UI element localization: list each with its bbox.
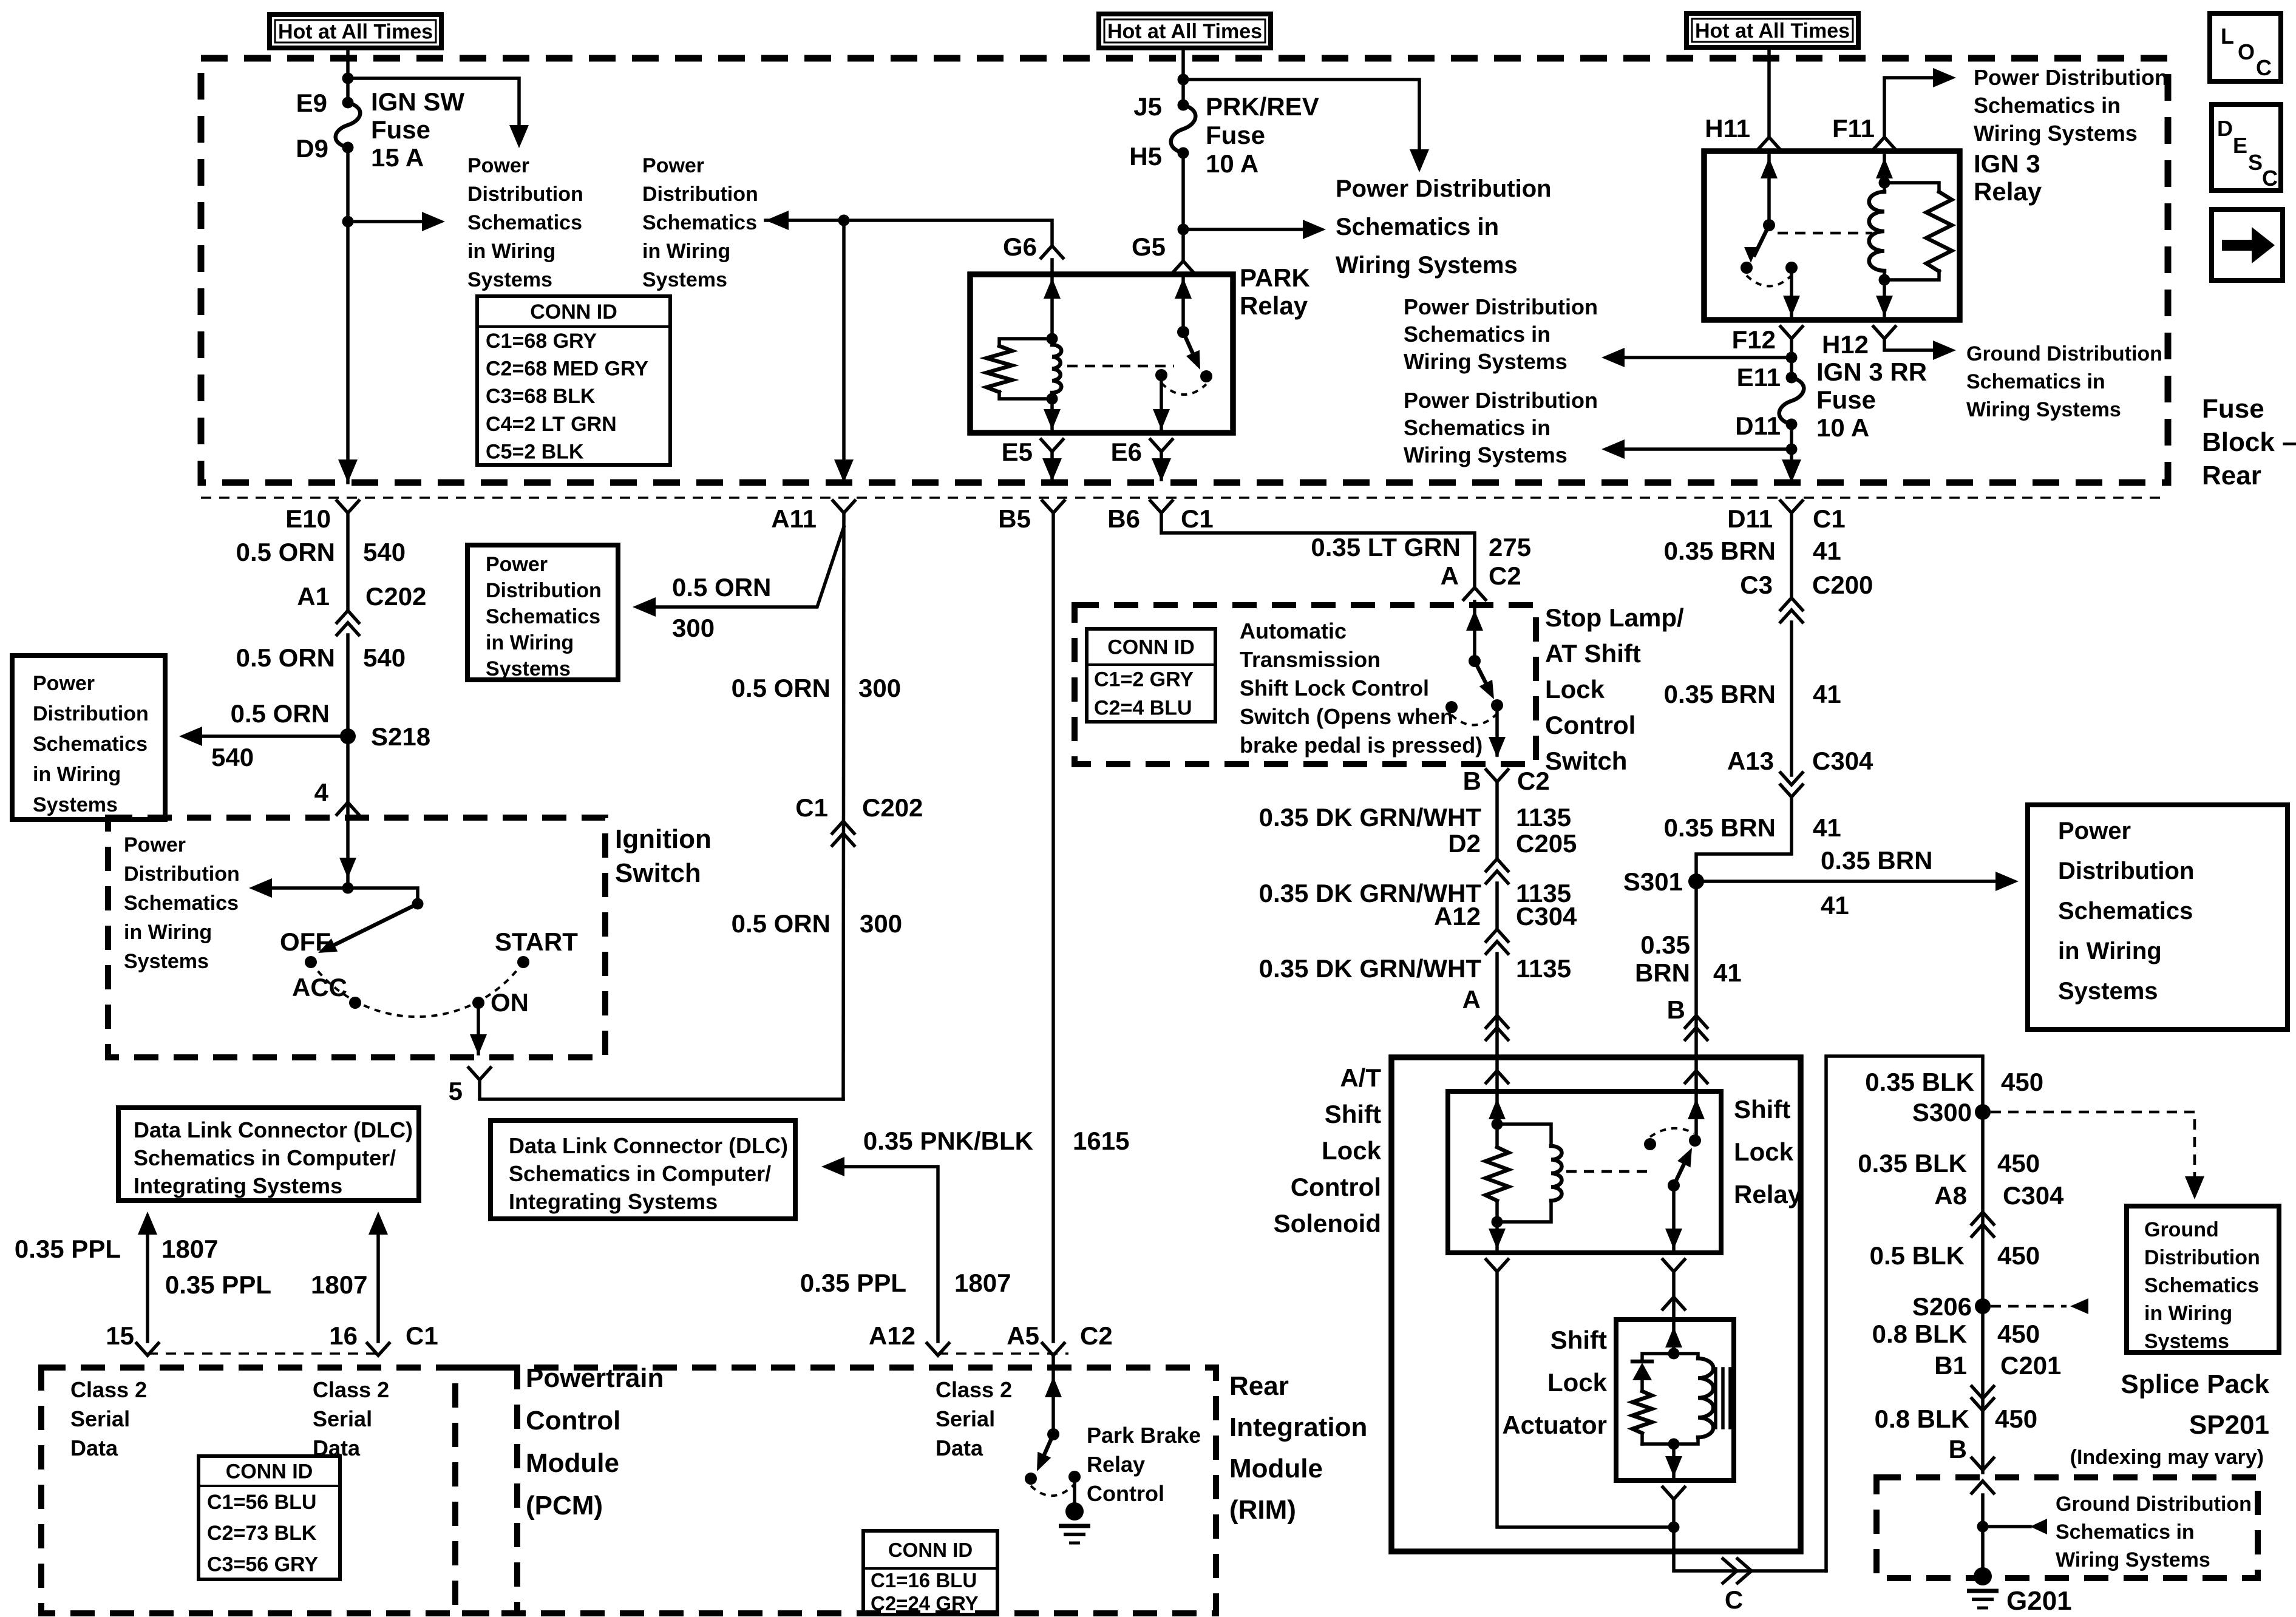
svg-text:Data Link Connector (DLC): Data Link Connector (DLC) [509,1133,788,1158]
link: IGN 3 relay coil to switch (dashed) [1778,232,1872,235]
svg-text:Module: Module [1229,1454,1323,1483]
svg-text:B6: B6 [1107,504,1140,533]
wire: coil return to solenoid common [1497,1272,1668,1527]
svg-text:C: C [2262,166,2278,191]
PCM connector boundary (thin dashed) [148,1352,378,1355]
CONN ID table (shift lock control switch) [1087,629,1215,722]
svg-text:Distribution: Distribution [467,183,583,206]
svg-text:Schematics: Schematics [642,211,757,234]
svg-text:Rear: Rear [1229,1371,1289,1401]
wire: A5 into RIM park brake switch [1051,1355,1055,1434]
splice S218 [340,728,356,744]
pin E10 (fuse block output) [337,501,359,513]
svg-text:Lock: Lock [1547,1368,1608,1397]
svg-text:C304: C304 [1516,902,1577,931]
junction on IGN SW output [342,216,354,228]
branch: ground distribution reference arrow [1983,1525,2030,1528]
svg-text:Actuator: Actuator [1502,1411,1607,1439]
CONN ID table (RIM) [863,1531,997,1615]
pin G5 (PARK relay switch feed) [1172,261,1194,273]
shift lock relay coil top junction [1492,1119,1503,1130]
svg-text:E11: E11 [1737,363,1781,392]
svg-text:in Wiring: in Wiring [33,763,121,786]
svg-text:A/T: A/T [1340,1063,1381,1092]
svg-text:Ground Distribution: Ground Distribution [1966,342,2162,365]
switch throw arc (park brake switch, dashed) [1031,1484,1075,1496]
rotary switch pivot [412,898,424,910]
svg-text:OFF: OFF [280,927,331,956]
svg-text:Schematics: Schematics [486,605,600,628]
svg-text:C202: C202 [365,582,426,611]
svg-text:0.35: 0.35 [1640,931,1690,959]
wire: 0.35 PNK/BLK 1615 (B5 to RIM A5) [1051,513,1055,1341]
svg-text:C2=68 MED GRY: C2=68 MED GRY [486,358,648,381]
svg-text:Fuse: Fuse [371,115,430,144]
svg-text:O: O [2238,39,2255,64]
IGN 3 relay contact (output to F12) [1785,262,1798,274]
svg-text:Hot at All Times: Hot at All Times [1107,20,1262,43]
IGN 3 relay coil bottom junction [1879,274,1890,286]
pin F12 [1781,327,1802,339]
ground G201 [1974,1567,1992,1585]
svg-text:in Wiring: in Wiring [124,921,212,944]
svg-text:0.35 BRN: 0.35 BRN [1664,537,1776,565]
IGN 3 relay coil branch (pin arrow) [1883,151,1886,183]
svg-text:Switch: Switch [615,858,701,888]
wire: A11 down to C202 and ignition switch feed [843,513,844,1099]
wire: branch arrow to Power Distribution reference (3) [1183,228,1305,231]
connector chevron into actuator [1663,1297,1685,1309]
svg-text:E6: E6 [1111,438,1142,466]
wire: 0.35 DK GRN/WHT 1135 (B to C205) [1495,782,1499,859]
wire: branch to Power Distribution reference (0.5 ORN 300) [654,527,844,607]
connector pin B (A/T shift lock control solenoid) [1685,1015,1707,1028]
wire: coil low side to pin H12 [1883,280,1886,320]
wire: 0.35 BLK 450 return (C up to splice pack) [1826,1056,1983,1571]
wire: 0.35 DK GRN/WHT 1135 (C205 to C304) [1495,883,1499,929]
svg-text:START: START [495,927,578,956]
svg-text:Schematics in Computer/: Schematics in Computer/ [134,1145,396,1170]
svg-text:Data Link Connector (DLC): Data Link Connector (DLC) [134,1117,413,1142]
svg-text:Stop Lamp/: Stop Lamp/ [1545,603,1684,632]
stop lamp switch contact (open, brake pressed) [1445,701,1458,713]
svg-text:B: B [1463,767,1481,795]
svg-text:Power: Power [486,553,548,576]
svg-text:Systems: Systems [124,950,209,973]
svg-text:0.5 BLK: 0.5 BLK [1870,1241,1965,1270]
svg-text:Wiring Systems: Wiring Systems [1966,398,2121,421]
page tab: next-page arrow box [2212,209,2283,280]
svg-text:Module: Module [526,1448,619,1478]
IGN 3 relay switch common (from H11) [1767,151,1771,225]
svg-text:H12: H12 [1822,330,1869,359]
svg-text:Power Distribution: Power Distribution [1404,294,1598,319]
svg-text:Relay: Relay [1734,1180,1802,1209]
shift lock relay coil bottom junction [1492,1216,1503,1228]
solenoid common junction [1668,1522,1680,1533]
junction at G6 feed [838,215,850,226]
svg-text:BRN: BRN [1635,958,1690,987]
svg-text:Schematics in Computer/: Schematics in Computer/ [509,1161,771,1186]
svg-text:PRK/REV: PRK/REV [1206,92,1319,121]
wire: pin 4 into ignition switch [346,816,350,888]
svg-text:300: 300 [672,614,715,642]
svg-text:41: 41 [1821,891,1849,920]
svg-text:Class 2: Class 2 [936,1377,1012,1402]
pin B5 (fuse block output, park relay coil return) [1042,501,1064,513]
svg-text:C2: C2 [1489,561,1521,590]
svg-text:Integrating Systems: Integrating Systems [134,1173,342,1198]
relay output fork (coil side) [1486,1259,1508,1272]
svg-text:Schematics: Schematics [2144,1274,2259,1297]
wire: switch output to pin B [1495,711,1499,755]
svg-text:S300: S300 [1912,1098,1972,1127]
svg-text:IGN 3: IGN 3 [1974,149,2040,178]
svg-text:Relay: Relay [1240,291,1308,320]
svg-text:H11: H11 [1705,114,1750,143]
svg-text:540: 540 [211,743,254,771]
svg-text:Class 2: Class 2 [70,1377,147,1402]
svg-text:4: 4 [314,778,329,807]
svg-text:B: B [1667,995,1685,1024]
IGN 3 relay switch arm [1754,225,1769,255]
svg-text:41: 41 [1813,680,1841,708]
svg-text:H5: H5 [1129,142,1162,171]
wire: branch to Power Distribution reference (left) [348,78,519,125]
shift lock relay switch arm (pivot below) [1674,1156,1688,1185]
svg-text:300: 300 [860,909,902,938]
actuator top junction [1668,1348,1680,1360]
pin 16 / C1 (PCM) [367,1343,389,1355]
svg-text:0.35 BRN: 0.35 BRN [1821,846,1932,875]
svg-text:Schematics: Schematics [33,733,148,756]
svg-text:1135: 1135 [1516,954,1571,983]
svg-text:41: 41 [1813,537,1841,565]
resistor (IGN 3 relay coil suppression) [1884,183,1939,192]
junction at F12 output [1786,352,1798,364]
svg-text:B5: B5 [998,504,1031,533]
wire: switch output to pin F12 [1790,274,1793,320]
svg-text:C205: C205 [1516,829,1577,858]
svg-text:450: 450 [1997,1241,2040,1270]
arrow: wire exits fuse block at D11 [1782,459,1801,483]
pin F11 (IGN 3 relay coil) [1873,137,1895,149]
svg-text:(RIM): (RIM) [1229,1495,1296,1525]
reference box: Power Distribution Schematics in Wiring Systems (right) [2028,805,2288,1029]
stop lamp switch common [1469,655,1481,667]
svg-text:C: C [2256,55,2272,80]
svg-text:Ignition: Ignition [615,824,712,854]
reference box: Data Link Connector (DLC) Schematics (middle) [491,1120,795,1219]
svg-text:A5: A5 [1007,1321,1039,1350]
svg-text:41: 41 [1713,958,1742,987]
wire: PRK/REV fuse output to PARK relay G5 [1181,153,1185,261]
svg-text:450: 450 [1997,1149,2040,1178]
wire: ON contact to pin 5 [477,1003,480,1054]
svg-text:Systems: Systems [467,268,552,291]
wire: relay switch output to actuator [1672,1272,1676,1320]
svg-text:C5=2 BLK: C5=2 BLK [486,440,584,463]
svg-text:Relay: Relay [1974,177,2042,206]
shift lock relay contact (fed from B) [1689,1134,1701,1147]
wire: 0.35 PPL 1807 (PCM pin 16 to DLC) [376,1232,380,1341]
svg-text:Automatic: Automatic [1240,619,1347,643]
svg-text:C1: C1 [406,1321,438,1350]
svg-text:Power: Power [33,672,95,695]
svg-text:Hot at All Times: Hot at All Times [1695,19,1850,42]
svg-text:Class 2: Class 2 [313,1377,389,1402]
wire: solenoid common to pin C [1674,1527,1826,1571]
svg-text:275: 275 [1489,533,1531,561]
resistor (actuator, below diode) [1632,1391,1652,1433]
contact ACC [349,997,361,1009]
svg-text:Block –: Block – [2202,427,2296,457]
svg-text:Systems: Systems [486,657,571,680]
svg-text:Lock: Lock [1322,1136,1382,1165]
svg-text:C2=24 GRY: C2=24 GRY [871,1592,979,1615]
svg-text:C304: C304 [1812,747,1873,775]
svg-text:Fuse: Fuse [2202,394,2264,424]
actuator feed (pin arrow) [1672,1320,1676,1354]
pin B entry into solenoid [1685,1071,1707,1083]
svg-text:450: 450 [1995,1405,2037,1433]
resistor (PARK relay coil suppression) [999,339,1052,346]
wire: H12 to Ground Distribution reference [1884,339,1934,350]
svg-text:Integration: Integration [1229,1412,1367,1442]
power feed: Hot at All Times (left) [270,15,441,48]
svg-text:10 A: 10 A [1816,413,1869,442]
svg-text:D11: D11 [1735,412,1781,440]
pin E5 [1041,439,1063,452]
svg-text:0.5 ORN: 0.5 ORN [231,699,330,728]
svg-text:41: 41 [1813,813,1841,842]
pin A entry into solenoid [1486,1071,1508,1083]
reference box: Power Distribution Schematics in Wiring Systems (middle) [467,545,618,680]
wire: coil low side out of relay [1495,1222,1499,1253]
pin H12 [1873,327,1895,339]
svg-text:C3: C3 [1740,571,1773,599]
svg-text:540: 540 [363,643,406,672]
svg-text:450: 450 [2001,1068,2043,1096]
CONN ID table for fuse block connectors [477,296,670,465]
svg-text:A8: A8 [1934,1181,1967,1210]
pin A12 (RIM) [927,1343,949,1355]
wire: switch output to pin E6 [1160,381,1163,433]
svg-text:Distribution: Distribution [2058,858,2194,884]
svg-text:1615: 1615 [1073,1127,1129,1155]
fuse block - rear (dashed enclosure) [201,58,2168,483]
wire: battery feed to IGN SW fuse [346,48,350,103]
module: Rear Integration Module (RIM) dashed box [455,1368,1216,1613]
svg-text:0.35 PPL: 0.35 PPL [165,1270,271,1299]
contact START [517,956,529,968]
svg-text:CONN ID: CONN ID [888,1539,973,1561]
svg-text:Power Distribution: Power Distribution [1336,175,1552,202]
svg-text:300: 300 [858,674,901,702]
svg-text:A: A [1441,561,1459,590]
svg-text:1807: 1807 [311,1270,367,1299]
svg-text:Systems: Systems [2144,1330,2229,1353]
fuse F1: IGN SW Fuse 15 A (pins E9/D9) [336,103,361,147]
svg-text:10 A: 10 A [1206,149,1258,178]
svg-text:in Wiring: in Wiring [642,240,730,263]
svg-text:Fuse: Fuse [1816,385,1876,414]
resistor (shift lock relay, inline) [1495,1124,1499,1147]
svg-text:0.35 BRN: 0.35 BRN [1664,813,1776,842]
pin G6 (PARK relay coil +) [1041,246,1063,258]
IGN 3 relay coil top junction [1879,177,1890,189]
stop lamp switch arm [1475,661,1490,692]
pin B / C2 (stop lamp switch output) [1486,770,1508,782]
svg-text:0.8 BLK: 0.8 BLK [1872,1320,1967,1348]
svg-text:Wiring Systems: Wiring Systems [2056,1548,2210,1571]
connector pin A (A/T shift lock control solenoid) [1486,1015,1508,1028]
wire: branch arrow to Power Distribution reference (2) [348,220,425,223]
wire: battery feed to PRK/REV fuse [1181,48,1185,105]
wire: arrow to Power Distribution reference (block B) [1625,447,1792,451]
contact ON [472,997,484,1009]
junction on PRK/REV output [1178,224,1189,236]
svg-text:Solenoid: Solenoid [1274,1209,1381,1238]
svg-text:C304: C304 [2003,1181,2064,1210]
wire: splice pack B to ground G201 [1972,1481,1994,1493]
svg-text:in Wiring: in Wiring [2144,1302,2232,1325]
svg-text:G201: G201 [2006,1586,2072,1616]
wire: switch pivot to relay output [1672,1185,1676,1253]
fuse F2: PRK/REV Fuse 10 A (pins J5/H5) [1171,105,1196,153]
svg-text:Schematics in: Schematics in [1404,322,1550,347]
svg-text:Data: Data [936,1436,983,1460]
svg-text:S206: S206 [1912,1292,1972,1321]
svg-text:D9: D9 [296,134,328,163]
svg-text:B: B [1949,1435,1967,1463]
CONN ID table (PCM) [199,1456,340,1579]
svg-text:J5: J5 [1133,92,1162,121]
svg-text:Schematics in: Schematics in [1974,93,2121,118]
device: A/T Shift Lock Control Solenoid (box) [1391,1057,1801,1551]
coil winding (IGN 3 relay) [1883,183,1886,192]
dashed branch: S206 to Ground Distribution reference [1991,1305,2067,1308]
svg-text:0.35 BLK: 0.35 BLK [1858,1149,1967,1178]
device: Ignition Switch (dashed box) [108,818,605,1057]
svg-text:0.5 ORN: 0.5 ORN [236,643,335,672]
svg-text:A11: A11 [771,504,817,533]
page tab: DESC box [2212,104,2281,191]
splice S300 [1975,1104,1991,1120]
coil winding (shift lock actuator) [1674,1354,1698,1358]
svg-text:Schematics: Schematics [467,211,582,234]
svg-text:Distribution: Distribution [33,702,149,725]
wire: 0.35 BRN 41 (C304 to S301) [1696,797,1792,881]
svg-text:Transmission: Transmission [1240,647,1381,672]
wire: pin 5 to 0.5 ORN 300 riser [480,1080,843,1099]
svg-text:Schematics in: Schematics in [1966,370,2105,393]
park brake switch arm [1041,1434,1053,1462]
svg-text:D11: D11 [1727,504,1773,533]
wire: F11 feed from Power Distribution reference [1884,78,1934,136]
svg-text:(Indexing may vary): (Indexing may vary) [2070,1446,2264,1469]
svg-text:Control: Control [1545,711,1635,739]
shift lock relay coil branch (pin arrow) [1495,1091,1499,1124]
svg-text:Systems: Systems [2058,978,2158,1005]
pin D11 / C1 (fuse block output) [1781,501,1802,513]
reference box: Ground Distribution Schematics in Wiring Systems (right) [2127,1206,2279,1352]
svg-text:Distribution: Distribution [486,579,602,602]
svg-text:Power: Power [642,154,704,177]
svg-text:G5: G5 [1132,232,1166,261]
svg-text:C2: C2 [1080,1321,1113,1350]
svg-text:Rear: Rear [2202,461,2261,490]
shift lock relay switch feed (from pin B) [1694,1091,1698,1141]
svg-text:(PCM): (PCM) [526,1491,603,1520]
wire: actuator return to solenoid common junction [1672,1499,1676,1527]
svg-text:F12: F12 [1732,325,1776,354]
power feed: Hot at All Times (middle) [1099,14,1271,48]
pin H11 (IGN 3 relay) [1758,137,1780,149]
svg-text:Schematics in: Schematics in [2056,1520,2195,1544]
IGN 3 relay contact (open) [1741,262,1753,274]
pin A5 / C2 (RIM) [1042,1343,1064,1355]
svg-text:Power: Power [2058,818,2131,844]
svg-text:IGN 3 RR: IGN 3 RR [1816,358,1927,386]
pin 15 (PCM) [137,1343,158,1355]
svg-text:C1=2 GRY: C1=2 GRY [1094,668,1194,691]
svg-text:540: 540 [363,538,406,566]
wire: 0.35 LT GRN 275 (B6 to stop lamp switch) [1161,513,1475,588]
relay K3: Shift Lock Relay (box) [1448,1091,1721,1253]
svg-text:0.5 ORN: 0.5 ORN [236,538,335,566]
switch throw arc (PARK relay, dashed) [1161,383,1206,395]
wire: IGN 3 RR fuse output [1790,424,1793,480]
coil winding (PARK relay) [1052,345,1061,393]
PARK relay coil branch (pin arrow) [1050,274,1054,339]
svg-text:Control: Control [526,1406,620,1436]
ground (RIM internal) [1065,1502,1084,1520]
wire: 0.35 BRN 41 (C200 to C304) [1790,622,1793,775]
svg-text:Shift: Shift [1550,1326,1607,1354]
svg-text:Serial: Serial [70,1406,130,1431]
svg-text:Distribution: Distribution [642,183,758,206]
svg-text:C1=16 BLU: C1=16 BLU [871,1569,977,1592]
wire: to rotary switch pivot [348,888,418,904]
svg-text:16: 16 [329,1321,358,1350]
power feed: Hot at All Times (right) [1686,13,1858,47]
ground distribution enclosure (dashed box) [1877,1477,2258,1578]
svg-text:S218: S218 [371,722,430,751]
ignition switch internal junction [342,883,354,894]
pin 5 (ignition switch output) [469,1068,491,1080]
svg-text:SP201: SP201 [2189,1410,2269,1440]
svg-text:0.5 ORN: 0.5 ORN [732,909,830,938]
svg-text:A12: A12 [869,1321,915,1350]
svg-text:C3=56 GRY: C3=56 GRY [207,1553,318,1576]
splice S206 [1975,1298,1991,1314]
svg-text:Park Brake: Park Brake [1087,1423,1201,1448]
svg-text:Hot at All Times: Hot at All Times [278,21,433,44]
junction at D11 output [1786,444,1798,455]
svg-text:CONN ID: CONN ID [1107,636,1195,659]
actuator bottom junction [1668,1439,1680,1450]
svg-text:A13: A13 [1727,747,1774,775]
dashed branch: S300 to Ground Distribution reference [1991,1112,2195,1180]
svg-text:CONN ID: CONN ID [226,1460,313,1483]
wire: feed to PARK relay coil G6 and fuse block output A11 [766,220,1052,245]
svg-text:A1: A1 [297,582,330,611]
svg-text:0.35 PPL: 0.35 PPL [800,1269,906,1297]
pin A11 (fuse block output) [833,501,855,513]
fuse F3: IGN 3 RR Fuse 10 A (pins E11/D11) [1779,378,1804,424]
rotary switch travel arc (dashed) [311,962,523,1017]
